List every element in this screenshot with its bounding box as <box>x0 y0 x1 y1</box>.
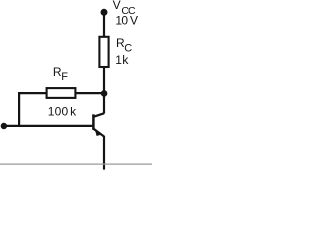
label RC <box>116 36 132 55</box>
label RF <box>53 65 68 83</box>
resistor RC <box>99 37 108 67</box>
wire input riser <box>18 92 20 126</box>
label 1 k <box>115 53 129 67</box>
input terminal node <box>1 123 7 129</box>
wire RC to collector node <box>103 67 105 114</box>
power terminal VCC node <box>101 9 108 16</box>
svg-text:k: k <box>122 53 129 67</box>
ground rail <box>0 163 152 165</box>
junction node feedback/collector <box>101 90 108 97</box>
wire emitter to ground rail <box>103 136 105 170</box>
svg-text:F: F <box>61 71 68 83</box>
wire input to base <box>4 125 93 127</box>
svg-text:k: k <box>70 105 77 119</box>
wire VCC to RC <box>103 12 105 37</box>
svg-text:10 V: 10 V <box>115 14 138 28</box>
wire RF to node <box>76 92 105 94</box>
label VCC <box>113 0 136 17</box>
svg-text:100: 100 <box>48 105 69 119</box>
transistor Q1 <box>93 113 104 136</box>
svg-text:V: V <box>113 0 121 12</box>
label 10 V <box>115 14 138 28</box>
wire RF to input riser <box>18 92 47 94</box>
resistor RF <box>47 88 76 98</box>
label 100 k <box>48 105 77 119</box>
